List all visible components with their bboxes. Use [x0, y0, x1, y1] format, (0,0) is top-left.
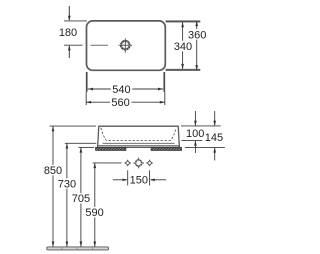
dim 360 arrows — [195, 21, 198, 26]
svg-text:100: 100 — [186, 128, 204, 140]
svg-text:180: 180 — [59, 27, 77, 39]
145 bottom extension line — [185, 146, 225, 148]
svg-text:560: 560 — [111, 97, 129, 109]
dim 145 line — [214, 111, 216, 125]
rim-level extension line (right) — [181, 125, 221, 127]
left countertop section (hatched) — [96, 147, 126, 150]
faucet hole left diamond — [124, 160, 131, 167]
floor bar tick 3 — [92, 247, 94, 249]
dim 180 line — [64, 6, 87, 58]
floor bar tick 1 — [61, 247, 63, 249]
dim 705 line — [80, 147, 82, 246]
svg-text:590: 590 — [85, 207, 103, 219]
730-level extension line — [65, 142, 97, 144]
dim 540 line — [88, 88, 163, 90]
dim 340 label — [174, 41, 193, 52]
basin front inner bottom edge line — [103, 142, 175, 144]
dim 540 extension lines — [86, 72, 165, 105]
dim 560 line — [86, 101, 165, 103]
rim-level extension line (left) — [50, 125, 97, 127]
dim 540 label — [111, 84, 133, 95]
floor bar tick 2 — [76, 247, 78, 249]
basin inner bowl dashed contour — [101, 128, 176, 141]
dim 340/360 extension lines — [166, 21, 201, 70]
svg-text:730: 730 — [58, 179, 76, 191]
svg-text:360: 360 — [188, 30, 206, 42]
dim 150 extension lines — [127, 170, 129, 185]
dim 340 arrows — [181, 22, 184, 27]
dim 590 line — [94, 163, 96, 247]
faucet hole right diamond — [146, 160, 153, 167]
basin top-view outer outline — [87, 21, 166, 70]
dim 560 label — [110, 97, 132, 108]
svg-text:705: 705 — [72, 193, 90, 205]
dim 100 label — [185, 128, 206, 138]
dim 150 line + arrows — [113, 179, 127, 181]
floor bar — [47, 247, 109, 250]
dim 360 label — [188, 29, 207, 40]
drain symbol — [119, 38, 132, 52]
dim 180 arrows — [68, 16, 71, 21]
100 bottom extension line — [182, 139, 203, 141]
svg-text:850: 850 — [44, 165, 62, 177]
705-level extension line — [79, 146, 95, 148]
dim 730 line — [66, 143, 68, 246]
svg-text:145: 145 — [205, 132, 223, 144]
dim 850 line — [52, 126, 54, 247]
svg-text:340: 340 — [174, 41, 192, 53]
590-level extension line — [93, 162, 122, 164]
svg-text:540: 540 — [112, 84, 130, 96]
right countertop section (hatched) — [151, 147, 181, 150]
basin front underside edge line — [98, 145, 179, 147]
faucet hole centre circle — [133, 158, 144, 169]
basin centre line (left of drain) — [91, 44, 109, 46]
dim 100 line — [194, 111, 196, 125]
basin front-view outline — [98, 126, 180, 147]
svg-text:150: 150 — [130, 175, 148, 187]
